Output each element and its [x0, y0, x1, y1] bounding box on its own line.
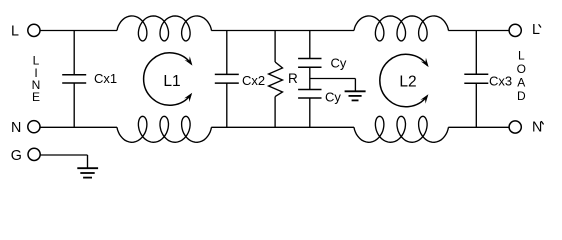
svg-text:Cx3: Cx3	[489, 73, 512, 88]
svg-text:R: R	[288, 71, 298, 86]
wire top rail right	[448, 30, 509, 32]
svg-text:A: A	[517, 75, 525, 89]
wire top rail left	[40, 30, 117, 32]
terminal N	[28, 121, 40, 133]
wire Cy midpoint	[309, 67, 311, 89]
svg-text:N: N	[11, 120, 21, 136]
svg-text:Cy: Cy	[331, 56, 347, 71]
resistor R	[274, 31, 276, 63]
svg-text:L: L	[11, 24, 19, 40]
wire top rail middle	[211, 30, 354, 32]
capacitor Cy bottom	[298, 89, 321, 91]
capacitor Cx2	[226, 31, 228, 75]
terminal Np	[509, 121, 521, 133]
capacitor Cx1	[73, 31, 75, 75]
L2 coupling arrows	[380, 54, 428, 106]
svg-text:E: E	[32, 90, 40, 104]
svg-text:Cx1: Cx1	[94, 71, 117, 86]
inductor L1 bottom winding	[117, 116, 212, 142]
svg-text:L: L	[518, 48, 525, 62]
terminal G	[28, 148, 40, 160]
terminal Lp	[509, 24, 521, 36]
inductor L2 bottom winding	[354, 116, 449, 142]
ground (Cy midpoint)	[354, 79, 356, 92]
svg-text:Cx2: Cx2	[242, 73, 265, 88]
inductor L2 top winding	[354, 16, 449, 41]
svg-text:L2: L2	[399, 74, 416, 91]
wire bottom rail left	[40, 126, 117, 128]
svg-text:D: D	[517, 89, 526, 103]
L1 coupling arrows	[144, 53, 192, 105]
svg-text:G: G	[11, 148, 22, 164]
svg-text:L1: L1	[163, 73, 180, 90]
wire G	[40, 154, 87, 156]
svg-text:Cy: Cy	[325, 89, 341, 104]
svg-text:N: N	[532, 119, 542, 135]
inductor L1 top winding	[117, 16, 212, 41]
ground (G)	[77, 167, 98, 169]
wire bottom rail middle	[211, 126, 354, 128]
svg-text:O: O	[517, 62, 526, 76]
capacitor Cx3	[475, 31, 477, 75]
terminal L	[28, 24, 40, 36]
wire bottom rail right	[448, 126, 509, 128]
capacitor Cy top	[309, 31, 311, 59]
